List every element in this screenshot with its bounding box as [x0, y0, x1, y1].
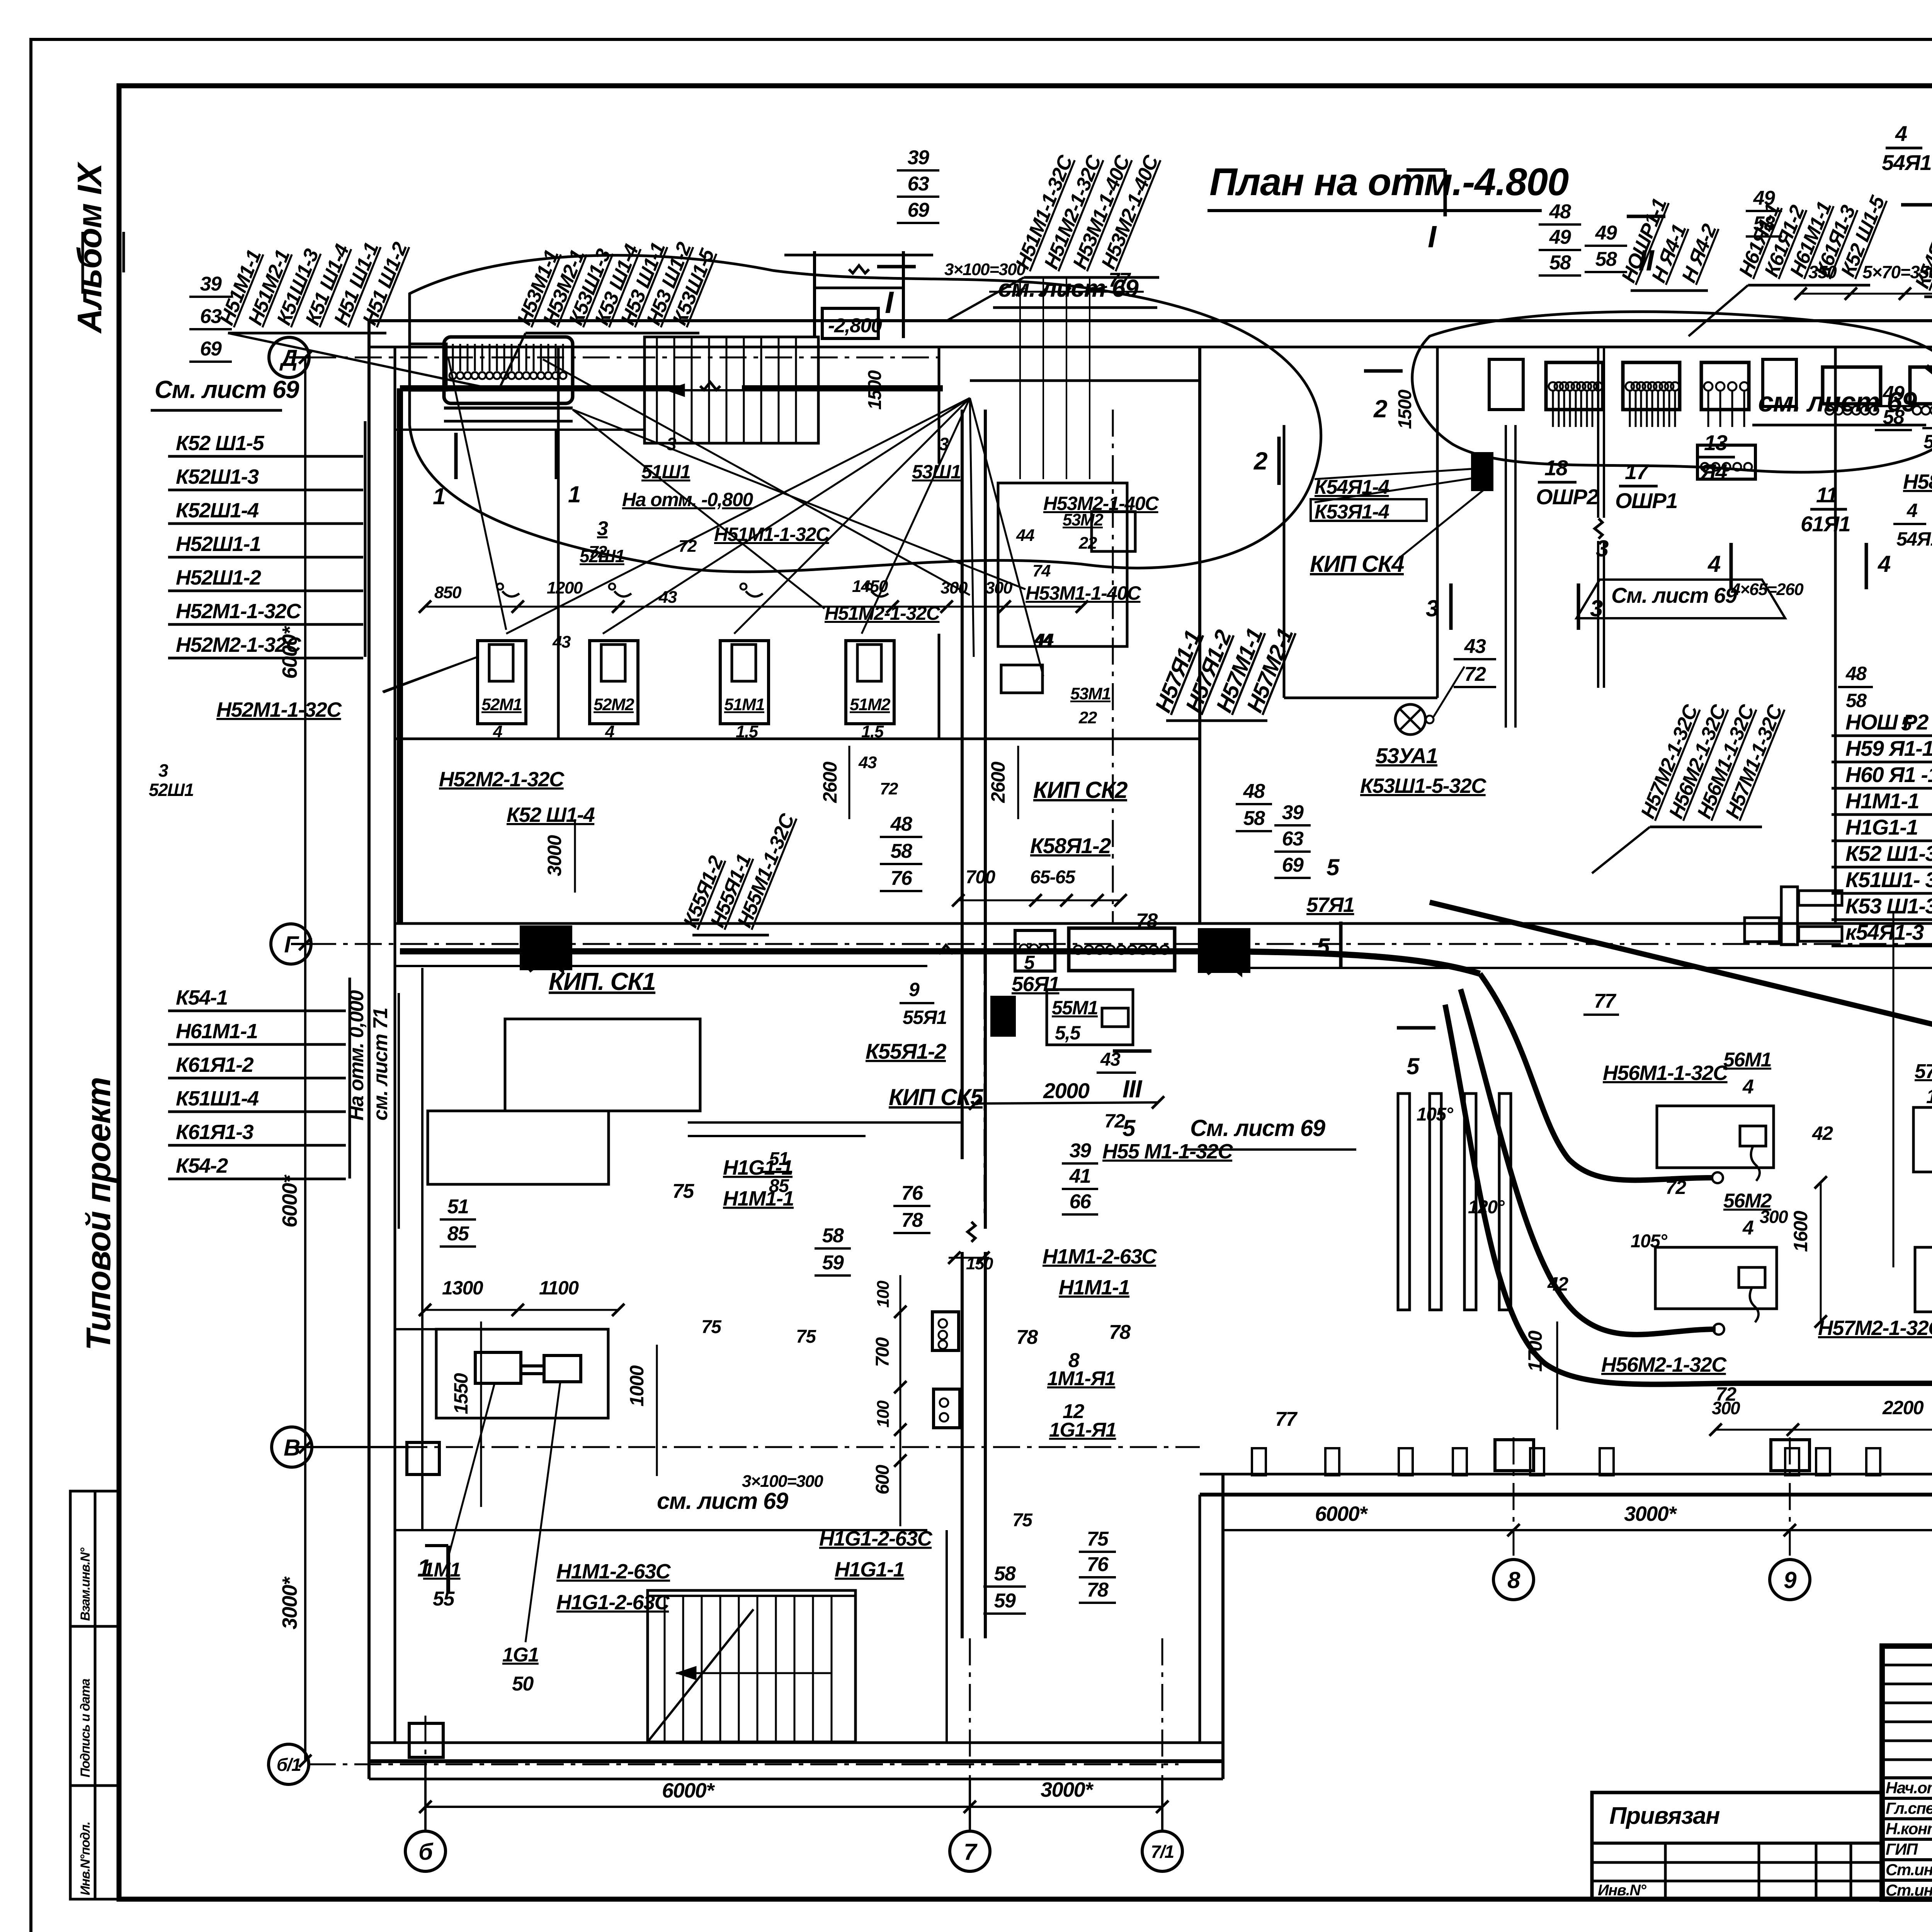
svg-text:3: 3 [1426, 595, 1439, 621]
svg-text:ОШР2: ОШР2 [1536, 485, 1599, 509]
svg-text:Н1М1-2-63С: Н1М1-2-63С [1043, 1245, 1157, 1268]
svg-text:1200: 1200 [547, 578, 583, 597]
svg-text:КИП СК4: КИП СК4 [1310, 551, 1404, 577]
svg-text:17: 17 [1625, 459, 1650, 484]
svg-text:II: II [1638, 244, 1655, 277]
svg-text:42: 42 [1812, 1122, 1833, 1144]
svg-text:Я4: Я4 [1699, 459, 1727, 484]
svg-text:300: 300 [1760, 1207, 1788, 1227]
svg-text:4: 4 [1895, 121, 1907, 146]
svg-text:8: 8 [1507, 1567, 1520, 1593]
svg-text:К54-2: К54-2 [176, 1154, 228, 1177]
svg-text:75: 75 [796, 1327, 816, 1347]
svg-text:76: 76 [891, 867, 913, 889]
svg-text:56Я1: 56Я1 [1012, 973, 1059, 996]
svg-text:4: 4 [1742, 1217, 1754, 1239]
svg-text:75: 75 [1087, 1528, 1109, 1550]
svg-text:9: 9 [1784, 1567, 1797, 1593]
svg-text:4: 4 [493, 722, 502, 741]
svg-text:ОШР1: ОШР1 [1615, 488, 1677, 513]
svg-text:Н1G1-1: Н1G1-1 [835, 1558, 904, 1581]
svg-text:22: 22 [1078, 708, 1097, 727]
svg-text:22: 22 [1078, 534, 1097, 553]
svg-text:7/1: 7/1 [1151, 1842, 1173, 1862]
svg-text:6000*: 6000* [278, 1174, 301, 1228]
svg-text:52Ш1: 52Ш1 [580, 546, 624, 566]
svg-text:58: 58 [822, 1225, 844, 1247]
svg-text:1,5: 1,5 [736, 722, 759, 741]
svg-text:4: 4 [1878, 551, 1891, 577]
svg-text:700: 700 [872, 1337, 893, 1367]
svg-text:51Ш1: 51Ш1 [641, 461, 690, 483]
svg-text:3: 3 [158, 760, 168, 781]
svg-text:52М2: 52М2 [594, 695, 634, 714]
svg-text:Н52М1-1-32С: Н52М1-1-32С [176, 600, 301, 623]
svg-text:59: 59 [822, 1252, 844, 1274]
svg-text:76: 76 [901, 1182, 923, 1204]
svg-text:52М1: 52М1 [481, 695, 522, 714]
svg-text:700: 700 [966, 867, 995, 888]
svg-text:51М1: 51М1 [724, 695, 764, 714]
svg-text:58: 58 [1883, 406, 1905, 429]
svg-text:1500: 1500 [1395, 389, 1415, 429]
svg-text:49: 49 [1595, 222, 1617, 244]
svg-text:Н53М2-1-40С: Н53М2-1-40С [1043, 493, 1159, 514]
svg-text:б: б [418, 1839, 434, 1865]
svg-text:3000*: 3000* [1624, 1502, 1677, 1526]
svg-text:53М1: 53М1 [1070, 684, 1111, 703]
svg-text:3×100=300: 3×100=300 [944, 260, 1026, 279]
svg-text:Н1G1-2-63С: Н1G1-2-63С [556, 1591, 670, 1614]
svg-text:Инв.N°подл.: Инв.N°подл. [78, 1822, 93, 1895]
svg-text:Подпись и дата: Подпись и дата [78, 1679, 93, 1777]
svg-text:5×70=350: 5×70=350 [1862, 262, 1932, 282]
svg-text:4: 4 [1742, 1076, 1754, 1098]
svg-text:1М1-Я1: 1М1-Я1 [1047, 1367, 1115, 1390]
svg-text:4: 4 [1906, 500, 1917, 521]
svg-text:50: 50 [512, 1673, 534, 1695]
svg-text:6000*: 6000* [1315, 1502, 1368, 1526]
svg-text:44: 44 [1035, 630, 1054, 649]
svg-text:Н56М2-1-32С: Н56М2-1-32С [1601, 1353, 1727, 1376]
svg-text:1G1: 1G1 [502, 1644, 539, 1666]
svg-text:К55Я1-2: К55Я1-2 [866, 1039, 946, 1063]
svg-text:54Я1: 54Я1 [1882, 150, 1931, 175]
svg-text:54Я1: 54Я1 [1896, 528, 1932, 550]
svg-text:39: 39 [1070, 1139, 1091, 1162]
svg-text:См. лист 69: См. лист 69 [155, 376, 299, 403]
svg-text:75: 75 [1012, 1510, 1033, 1531]
svg-text:Н52Ш1-1: Н52Ш1-1 [176, 532, 260, 556]
svg-text:3000*: 3000* [1041, 1778, 1094, 1801]
svg-text:К52 Ш1-5: К52 Ш1-5 [176, 432, 265, 455]
svg-text:Н55 М1-1-32С: Н55 М1-1-32С [1102, 1140, 1233, 1163]
svg-text:4: 4 [605, 722, 614, 741]
svg-text:61Я1: 61Я1 [1801, 512, 1850, 536]
svg-text:63: 63 [908, 173, 929, 195]
svg-text:НОШ Р2 -1: НОШ Р2 -1 [1845, 710, 1932, 734]
svg-text:Инв.N°: Инв.N° [1598, 1882, 1647, 1899]
svg-text:43: 43 [1100, 1049, 1121, 1070]
svg-text:Гл.спец.: Гл.спец. [1886, 1799, 1932, 1817]
svg-text:76: 76 [1087, 1553, 1109, 1576]
svg-text:1,5: 1,5 [1926, 1085, 1932, 1108]
svg-text:К51Ш1-4: К51Ш1-4 [176, 1087, 259, 1110]
svg-text:Н1М1-2-63С: Н1М1-2-63С [556, 1560, 671, 1583]
svg-text:58: 58 [994, 1563, 1016, 1585]
svg-text:43: 43 [858, 753, 877, 772]
svg-text:850: 850 [434, 583, 462, 602]
svg-text:600: 600 [872, 1464, 893, 1494]
svg-text:77: 77 [1109, 269, 1131, 291]
svg-text:Н51М2-1-32С: Н51М2-1-32С [825, 602, 940, 624]
svg-text:52Ш1: 52Ш1 [149, 780, 194, 800]
svg-text:55М1: 55М1 [1052, 997, 1098, 1019]
svg-text:53УА1: 53УА1 [1376, 743, 1437, 768]
svg-text:69: 69 [1282, 854, 1304, 876]
svg-text:58: 58 [1753, 213, 1775, 235]
svg-text:Н1G1-2-63С: Н1G1-2-63С [819, 1527, 933, 1550]
svg-text:Н52Ш1-2: Н52Ш1-2 [176, 566, 261, 589]
svg-text:57М1: 57М1 [1915, 1060, 1932, 1083]
svg-text:2000: 2000 [1043, 1078, 1090, 1103]
svg-text:Н51М1-1-32С: Н51М1-1-32С [714, 524, 830, 545]
svg-text:3×100=300: 3×100=300 [742, 1472, 823, 1491]
svg-text:5: 5 [1327, 854, 1340, 880]
svg-text:К51Ш1- 3: К51Ш1- 3 [1845, 867, 1932, 892]
svg-text:I: I [1428, 219, 1437, 254]
svg-text:350: 350 [1808, 262, 1837, 282]
svg-text:План на отм.-4.800: План на отм.-4.800 [1209, 160, 1569, 204]
svg-text:Н57М2-1-32С: Н57М2-1-32С [1818, 1316, 1932, 1340]
svg-text:Взам.инв.N°: Взам.инв.N° [78, 1548, 93, 1621]
svg-text:1: 1 [433, 483, 445, 509]
svg-text:43: 43 [1464, 635, 1486, 658]
svg-text:III: III [1122, 1075, 1143, 1103]
svg-text:7: 7 [964, 1839, 978, 1865]
svg-text:58: 58 [891, 840, 912, 862]
svg-text:58: 58 [1595, 248, 1617, 270]
svg-text:39: 39 [200, 273, 222, 295]
svg-text:К52 Ш1-3: К52 Ш1-3 [1845, 841, 1932, 866]
svg-text:3000: 3000 [544, 835, 565, 876]
svg-text:2200: 2200 [1882, 1397, 1924, 1418]
svg-text:КИП. СК1: КИП. СК1 [549, 968, 655, 995]
svg-text:1,5: 1,5 [861, 722, 884, 741]
svg-text:Н60 Я1 -1: Н60 Я1 -1 [1845, 762, 1932, 787]
svg-text:Альбом IX: Альбом IX [70, 161, 109, 334]
svg-text:Н53М1-1-40С: Н53М1-1-40С [1026, 582, 1141, 604]
svg-text:1000: 1000 [626, 1365, 648, 1406]
svg-text:К53 Ш1-3: К53 Ш1-3 [1845, 894, 1932, 918]
svg-text:Н1М1-1: Н1М1-1 [1845, 789, 1919, 813]
svg-text:58: 58 [1846, 690, 1867, 711]
svg-text:72: 72 [1104, 1110, 1125, 1132]
svg-text:49: 49 [1883, 382, 1905, 405]
svg-text:2600: 2600 [819, 762, 841, 803]
svg-text:43: 43 [552, 633, 571, 651]
svg-text:48: 48 [1845, 663, 1867, 684]
svg-text:63: 63 [200, 305, 222, 328]
svg-text:78: 78 [901, 1209, 923, 1231]
svg-text:-2,800: -2,800 [828, 315, 882, 337]
svg-text:5: 5 [1024, 952, 1035, 973]
svg-text:78: 78 [1016, 1326, 1038, 1349]
svg-text:1550: 1550 [450, 1373, 472, 1414]
svg-text:2: 2 [1373, 395, 1387, 423]
svg-text:Нач.отд.: Нач.отд. [1886, 1779, 1932, 1797]
svg-text:55: 55 [433, 1588, 455, 1610]
svg-text:На отм. -0,800: На отм. -0,800 [622, 489, 753, 510]
svg-text:300: 300 [985, 578, 1013, 597]
svg-text:39: 39 [908, 146, 929, 169]
svg-text:Ст.инж.: Ст.инж. [1886, 1861, 1932, 1879]
svg-text:56М1: 56М1 [1723, 1049, 1771, 1071]
svg-text:57Я1: 57Я1 [1306, 893, 1354, 917]
svg-text:78: 78 [1087, 1579, 1109, 1601]
svg-text:1М1: 1М1 [423, 1559, 461, 1581]
svg-text:К52Ш1-3: К52Ш1-3 [176, 465, 259, 488]
svg-text:74: 74 [1032, 561, 1051, 580]
svg-text:11: 11 [1816, 483, 1837, 507]
svg-text:Н52М2-1-32С: Н52М2-1-32С [439, 768, 565, 791]
svg-text:85: 85 [447, 1223, 469, 1245]
svg-text:Н.контр.: Н.контр. [1886, 1820, 1932, 1838]
svg-text:См. лист 69: См. лист 69 [1611, 583, 1737, 607]
svg-text:78: 78 [1109, 1321, 1131, 1344]
svg-text:48: 48 [890, 813, 912, 835]
svg-text:58: 58 [1549, 252, 1571, 274]
svg-text:51: 51 [769, 1149, 788, 1169]
svg-text:Привязан: Привязан [1609, 1803, 1720, 1829]
svg-text:72: 72 [1665, 1177, 1686, 1198]
svg-text:48: 48 [1243, 780, 1265, 803]
svg-text:Типовой проект: Типовой проект [79, 1077, 117, 1350]
svg-text:55Я1: 55Я1 [903, 1007, 947, 1028]
svg-text:К61Я1-2: К61Я1-2 [176, 1053, 254, 1077]
svg-text:см. лист 69: см. лист 69 [657, 1488, 789, 1514]
svg-text:К54Я1-4: К54Я1-4 [1315, 476, 1389, 498]
svg-text:63: 63 [1282, 828, 1304, 850]
svg-text:К54-1: К54-1 [176, 986, 228, 1009]
svg-text:5,5: 5,5 [1055, 1022, 1081, 1044]
svg-text:КИП СК5: КИП СК5 [889, 1084, 984, 1110]
svg-text:Н1М1-1: Н1М1-1 [1059, 1276, 1129, 1299]
svg-text:Н56М1-1-32С: Н56М1-1-32С [1603, 1061, 1728, 1085]
svg-text:75: 75 [701, 1317, 722, 1337]
svg-text:72: 72 [1464, 663, 1486, 685]
svg-text:1: 1 [568, 481, 580, 507]
svg-text:65-65: 65-65 [1030, 867, 1076, 888]
svg-text:Н52М2-1-32С: Н52М2-1-32С [176, 633, 301, 656]
svg-text:Ст.инж.: Ст.инж. [1886, 1881, 1932, 1899]
svg-text:3: 3 [1596, 536, 1609, 561]
svg-text:1G1-Я1: 1G1-Я1 [1049, 1419, 1116, 1441]
svg-text:2: 2 [1253, 447, 1267, 475]
svg-text:51М2: 51М2 [850, 695, 891, 714]
svg-text:I: I [885, 285, 894, 320]
svg-text:72: 72 [679, 537, 697, 556]
svg-text:9: 9 [909, 979, 920, 1000]
svg-text:77: 77 [1594, 990, 1616, 1012]
svg-text:300: 300 [940, 578, 968, 597]
svg-text:300: 300 [1712, 1398, 1740, 1418]
svg-text:К53Ш1-5-32С: К53Ш1-5-32С [1360, 774, 1486, 798]
svg-text:44: 44 [1016, 526, 1034, 545]
svg-text:1600: 1600 [1790, 1211, 1811, 1252]
svg-text:75: 75 [672, 1180, 694, 1202]
svg-text:13: 13 [1704, 430, 1728, 455]
svg-text:105°: 105° [1417, 1104, 1454, 1125]
svg-text:Н59 Я1-1: Н59 Я1-1 [1845, 736, 1932, 760]
svg-text:К58Я1-2: К58Я1-2 [1030, 833, 1111, 858]
svg-text:66: 66 [1070, 1190, 1092, 1213]
svg-text:48: 48 [1549, 201, 1571, 223]
svg-text:72: 72 [880, 779, 898, 798]
svg-text:69: 69 [200, 338, 222, 360]
svg-text:49: 49 [1753, 187, 1775, 209]
svg-text:5: 5 [1406, 1053, 1420, 1079]
svg-text:85: 85 [769, 1176, 789, 1196]
svg-text:1100: 1100 [539, 1277, 579, 1299]
svg-text:100: 100 [874, 1400, 893, 1428]
svg-text:78: 78 [1136, 910, 1158, 932]
svg-text:69: 69 [908, 199, 929, 221]
svg-text:3: 3 [597, 517, 608, 540]
svg-text:77: 77 [1275, 1408, 1298, 1430]
svg-text:18: 18 [1544, 456, 1568, 480]
svg-text:К52 Ш1-4: К52 Ш1-4 [507, 803, 595, 827]
svg-text:3000*: 3000* [278, 1576, 301, 1629]
svg-text:49: 49 [1549, 226, 1571, 248]
svg-text:б/1: б/1 [277, 1755, 301, 1775]
svg-text:51: 51 [447, 1196, 469, 1218]
svg-text:100: 100 [874, 1281, 893, 1308]
svg-text:К52Ш1-4: К52Ш1-4 [176, 499, 259, 522]
svg-text:1700: 1700 [1524, 1330, 1546, 1372]
svg-text:1300: 1300 [442, 1277, 483, 1299]
svg-text:42: 42 [1547, 1273, 1568, 1295]
svg-text:39: 39 [1282, 801, 1304, 824]
svg-text:105°: 105° [1631, 1231, 1668, 1252]
svg-text:Н58М1-1-32С: Н58М1-1-32С [1903, 470, 1932, 493]
svg-text:см. лист 71: см. лист 71 [369, 1008, 392, 1121]
svg-text:6000*: 6000* [662, 1779, 715, 1802]
svg-text:Н61М1-1: Н61М1-1 [176, 1020, 258, 1043]
svg-text:Н52М1-1-32С: Н52М1-1-32С [216, 698, 342, 721]
svg-text:3: 3 [939, 434, 949, 454]
svg-text:К61Я1-3: К61Я1-3 [176, 1121, 254, 1144]
svg-text:См. лист 69: См. лист 69 [1190, 1115, 1326, 1141]
svg-text:4: 4 [1708, 551, 1721, 577]
svg-text:ГИП: ГИП [1886, 1840, 1918, 1858]
svg-text:Н1G1-1: Н1G1-1 [1845, 815, 1918, 839]
svg-text:2600: 2600 [987, 762, 1009, 803]
svg-text:5: 5 [1901, 713, 1912, 735]
svg-text:58: 58 [1243, 807, 1265, 830]
svg-text:41: 41 [1069, 1165, 1091, 1187]
svg-text:59: 59 [994, 1590, 1016, 1612]
